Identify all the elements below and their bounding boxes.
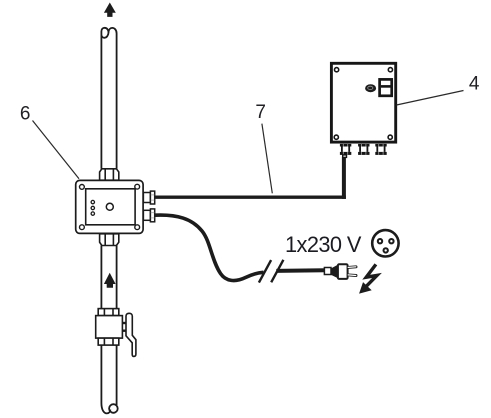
valve body	[96, 316, 123, 339]
valve stem	[122, 322, 126, 332]
box 6 cable connector top	[143, 191, 154, 204]
box 6 inner panel	[86, 189, 135, 225]
lightning bolt symbol	[366, 264, 377, 286]
box 4 indicator LED	[365, 84, 376, 92]
power cord from box 6	[155, 215, 264, 280]
valve lower flange	[98, 338, 119, 345]
box 6 LED indicators	[91, 200, 94, 215]
box 4 corner screws	[334, 68, 392, 140]
valve upper flange	[98, 309, 119, 316]
box 4 cable gland 2	[358, 144, 369, 155]
mains socket symbol	[372, 230, 398, 256]
box 6 cable connector bottom	[143, 209, 154, 222]
box 6 sensor window	[106, 203, 113, 210]
mains plug	[324, 264, 356, 279]
cable break symbol	[259, 260, 284, 283]
leader line for label 7	[262, 124, 272, 194]
flow arrow top (above pipe)	[104, 3, 116, 17]
pipe lower segment with torn end	[101, 345, 117, 413]
box 4 rocker switch	[380, 79, 392, 95]
svg-text:6: 6	[20, 103, 31, 124]
svg-text:4: 4	[469, 74, 480, 95]
pipe segment between box 6 and valve	[101, 246, 116, 309]
pipe fitting nut below box 6	[100, 234, 119, 246]
signal cable 7 horizontal run	[155, 195, 346, 198]
flow arrow inside pipe	[104, 273, 116, 288]
pipe upper segment with torn end	[101, 28, 116, 169]
control box 4 housing	[331, 63, 395, 142]
box 6 corner screws	[80, 184, 140, 229]
svg-text:1x230 V: 1x230 V	[285, 232, 362, 257]
box 4 cable gland 1	[340, 144, 351, 158]
leader line for label 6	[33, 121, 80, 179]
pipe fitting nut above box 6	[100, 169, 119, 180]
valve handle	[126, 313, 136, 356]
power cord after break	[276, 268, 324, 273]
box 4 cable gland 3	[375, 144, 386, 155]
leader line for label 4	[397, 91, 464, 106]
sensor box 6 outer housing	[76, 180, 143, 233]
signal cable 7 vertical run	[342, 157, 346, 199]
svg-text:7: 7	[255, 102, 266, 123]
